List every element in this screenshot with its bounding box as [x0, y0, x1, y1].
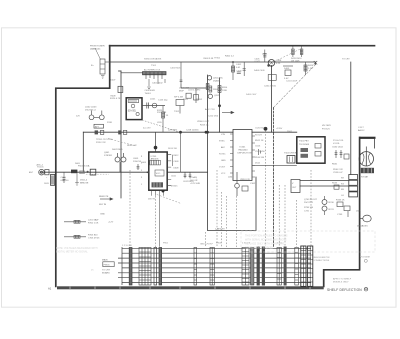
svg-text:C705 47/25: C705 47/25 — [88, 237, 100, 239]
svg-text:D406 C407: D406 C407 — [246, 94, 257, 96]
svg-text:VCC: VCC — [221, 173, 226, 175]
svg-text:680P: 680P — [179, 91, 184, 93]
svg-text:TP202: TP202 — [196, 99, 203, 101]
svg-text:C517 1/50: C517 1/50 — [255, 151, 265, 153]
svg-text:D601-4: D601-4 — [80, 180, 88, 182]
svg-text:SHELF DEFLECTION: SHELF DEFLECTION — [327, 288, 362, 292]
connector block P3 — [154, 248, 162, 286]
capacitor C405 above rail — [263, 50, 266, 63]
svg-text:VCO: VCO — [156, 173, 161, 175]
junction box K2 on wire — [118, 130, 121, 134]
svg-text:A66JC: A66JC — [358, 129, 365, 132]
connector block P2 ladder — [139, 248, 151, 286]
svg-text:DEGAUSS: DEGAUSS — [357, 225, 368, 228]
svg-text:D602 R605: D602 R605 — [112, 149, 123, 151]
svg-text:R119 2.2K: R119 2.2K — [96, 142, 106, 144]
footer title bar — [57, 286, 324, 289]
node X415 cross — [314, 61, 317, 64]
svg-text:KEY IN: KEY IN — [99, 204, 107, 206]
wire dashed vertical x273 — [273, 108, 275, 247]
svg-text:C605: C605 — [133, 158, 139, 160]
svg-text:DIGITAL METER NO SIGNAL: DIGITAL METER NO SIGNAL — [56, 251, 88, 254]
H.STAT dark box — [361, 168, 374, 173]
svg-text:H.STAT: H.STAT — [361, 176, 369, 179]
svg-text:R703 820: R703 820 — [88, 235, 98, 237]
node dot D big — [264, 127, 268, 131]
resistor R410 vertical — [292, 47, 295, 58]
svg-text:C520 R522: C520 R522 — [255, 127, 266, 129]
wire IC201 top feed — [155, 132, 157, 152]
svg-text:J-RED 9V: J-RED 9V — [215, 229, 225, 231]
svg-text:R702 1.5K: R702 1.5K — [88, 222, 99, 224]
svg-text:T501 FBT: T501 FBT — [299, 141, 309, 143]
svg-text:C731: C731 — [304, 211, 310, 213]
svg-text:2SC2271: 2SC2271 — [304, 202, 314, 204]
svg-text:REMOTE: REMOTE — [99, 196, 109, 198]
connector bar P2b ladder — [194, 248, 197, 286]
svg-text:BOARD: BOARD — [102, 271, 110, 274]
node circled ground — [364, 259, 367, 262]
connector block P1 — [129, 248, 132, 286]
svg-text:L203 4.5MHZ: L203 4.5MHZ — [188, 90, 201, 92]
wire L204 to Q201 — [181, 84, 208, 88]
svg-text:C609: C609 — [174, 161, 180, 163]
svg-text:1W 120K: 1W 120K — [291, 60, 300, 62]
dashed vertical feed x236 — [236, 196, 238, 247]
svg-text:THIS PORTION APPLIES TO CHASSI: THIS PORTION APPLIES TO CHASSIS — [245, 235, 288, 238]
dashed vertical feed x311 — [310, 170, 312, 246]
svg-text:(C) 4.8V: (C) 4.8V — [143, 128, 151, 130]
transformer T501 flyback bold box — [297, 137, 325, 163]
connector block P5 ladder — [242, 248, 249, 286]
junction box K1 on wire — [95, 130, 98, 134]
svg-text:V.OUT: V.OUT — [219, 167, 226, 169]
svg-text:C402: C402 — [236, 64, 242, 66]
node dot below IC201 — [162, 190, 165, 193]
chassis outline left step — [56, 46, 110, 287]
caption ground symbol circle — [364, 287, 368, 291]
svg-text:R512 1K: R512 1K — [255, 140, 264, 142]
svg-text:AGC 7.5V: AGC 7.5V — [205, 108, 215, 111]
svg-text:C210 1/50: C210 1/50 — [208, 116, 219, 118]
dashed board edge left — [108, 139, 136, 147]
svg-text:TLF14568: TLF14568 — [299, 144, 310, 146]
svg-text:D501: D501 — [287, 131, 293, 133]
capacitor C602 with ground — [63, 172, 66, 182]
node dot B — [179, 131, 182, 134]
wire x180 drop — [180, 132, 182, 172]
wire main B+ bus y62 — [110, 62, 316, 65]
svg-text:D608: D608 — [174, 167, 180, 169]
yoke stem — [365, 147, 367, 152]
svg-text:C408: C408 — [276, 60, 282, 62]
svg-text:R215 1K: R215 1K — [200, 125, 209, 127]
svg-text:RESOLDER PIN: RESOLDER PIN — [313, 257, 330, 259]
svg-text:H.OSC: H.OSC — [219, 154, 226, 156]
svg-text:C.R.T: C.R.T — [358, 127, 364, 129]
svg-text:+12V: +12V — [108, 222, 114, 224]
dashed link Q401 bias — [275, 48, 303, 61]
node dot C2 — [206, 131, 209, 134]
resistor R411 vertical — [300, 47, 303, 58]
dashed vertical feed x155 — [155, 196, 157, 247]
transistor Q121 — [152, 103, 157, 108]
wire right side y186 — [300, 185, 349, 187]
svg-text:R408: R408 — [111, 96, 117, 98]
transistor Q201 — [206, 76, 212, 90]
svg-text:C410 47/160: C410 47/160 — [264, 86, 277, 88]
svg-text:R206 10K: R206 10K — [213, 89, 223, 91]
wire vertical x219 — [219, 78, 221, 132]
resistor R204 vertical — [218, 86, 221, 93]
wire vertical x268 — [271, 66, 273, 132]
svg-text:(*): (*) — [91, 270, 94, 272]
node dot IC201 top — [154, 146, 158, 150]
svg-text:V-COIL: V-COIL — [333, 143, 341, 145]
svg-text:TO CRT: TO CRT — [102, 270, 111, 272]
transistor Q301 center — [235, 172, 248, 196]
svg-text:R740: R740 — [329, 202, 335, 204]
svg-text:C406 R405: C406 R405 — [170, 68, 181, 70]
svg-text:Q202: Q202 — [214, 95, 220, 97]
svg-text:T502 DRIVE: T502 DRIVE — [284, 153, 297, 155]
dashed vertical feed x279 — [278, 185, 280, 247]
dashed vertical feed x205 — [205, 232, 207, 247]
dashed vertical feed x296 — [296, 200, 298, 247]
transistor Q102 cluster left — [89, 111, 104, 129]
svg-text:D605: D605 — [75, 163, 81, 165]
svg-text:APPLY TO SHELF: APPLY TO SHELF — [333, 278, 352, 281]
svg-text:R403 3.3K: R403 3.3K — [204, 58, 214, 60]
svg-text:R531: R531 — [332, 164, 338, 166]
svg-text:Q301: Q301 — [228, 177, 234, 179]
svg-text:DEFLECTION: DEFLECTION — [238, 153, 252, 155]
connector T101 bar — [143, 72, 167, 90]
svg-text:AFC: AFC — [221, 146, 226, 149]
transistor Q703 circle — [322, 200, 327, 205]
wire Q703 stem — [324, 196, 326, 215]
dashed vertical feed x226 — [226, 196, 228, 247]
svg-text:C530 L504: C530 L504 — [332, 147, 343, 149]
svg-text:DY H-COIL: DY H-COIL — [333, 140, 344, 142]
wire vertical x207 — [208, 75, 257, 231]
svg-text:FOCUS: FOCUS — [322, 129, 330, 131]
svg-text:R122 56K: R122 56K — [157, 112, 167, 114]
bus harness lines — [118, 247, 311, 285]
svg-text:C218 100/16: C218 100/16 — [186, 130, 199, 132]
arrow into IC201 — [145, 171, 148, 173]
svg-text:P902: P902 — [163, 243, 169, 245]
svg-text:R745 1K: R745 1K — [336, 200, 345, 202]
transistor Q601 pair — [115, 153, 126, 172]
svg-text:2SC945 x2: 2SC945 x2 — [85, 109, 97, 111]
video out box V701 — [291, 180, 300, 193]
svg-text:T202: T202 — [174, 111, 180, 113]
capacitor C402 cluster — [231, 62, 240, 80]
svg-text:C401 R402: C401 R402 — [152, 83, 163, 85]
capacitor C121 plates — [142, 103, 165, 109]
svg-text:KG: KG — [341, 183, 344, 185]
svg-text:D405: D405 — [284, 68, 290, 70]
resistor R414 vertical — [304, 62, 307, 75]
connector block P11 ladder — [295, 248, 299, 286]
label below IC201 pins — [152, 191, 164, 247]
dashed vertical feed x130 — [129, 170, 131, 247]
svg-text:SW401 DEGAUSS: SW401 DEGAUSS — [144, 58, 162, 61]
svg-text:R204: R204 — [222, 87, 228, 89]
svg-text:C515: C515 — [255, 146, 261, 148]
svg-text:KR: KR — [341, 178, 344, 180]
diode D601 dark — [87, 171, 89, 173]
connector block P10 dark — [284, 247, 287, 286]
IC U201 bold box — [149, 152, 167, 190]
connector block P13 boxed ladder — [308, 246, 313, 286]
wire horizontal y132 — [83, 131, 296, 133]
tuner input jack — [39, 169, 49, 175]
svg-text:1.2K: 1.2K — [308, 68, 313, 70]
wire tuner line y172 — [40, 171, 208, 173]
dashed stub right of relay — [86, 173, 109, 175]
svg-text:16V 9V: 16V 9V — [148, 199, 156, 201]
svg-text:VOLTAGE: VOLTAGE — [360, 256, 371, 259]
svg-text:IC501: IC501 — [240, 147, 247, 149]
svg-text:H.OUT: H.OUT — [255, 135, 262, 137]
dashed vertical feed x221 — [221, 192, 223, 247]
node dot E — [71, 170, 77, 174]
svg-text:L601: L601 — [356, 211, 362, 213]
svg-text:WITH SERIAL NO. 50001 AND ABOV: WITH SERIAL NO. 50001 AND ABOVE — [245, 239, 287, 242]
svg-text:AC INTERLOCK: AC INTERLOCK — [144, 68, 161, 71]
ground G1 under blob — [75, 173, 79, 185]
svg-text:T101: T101 — [151, 65, 157, 67]
svg-text:R533: R533 — [332, 183, 338, 185]
svg-text:HV 26KV: HV 26KV — [322, 125, 332, 127]
svg-text:GND: GND — [100, 214, 105, 216]
dashed vertical feed x285 — [284, 185, 286, 246]
svg-text:16V OR: 16V OR — [190, 180, 198, 182]
svg-text:470/25: 470/25 — [171, 186, 178, 188]
svg-text:R610 0.22: R610 0.22 — [127, 145, 137, 147]
connector block P7 dark — [257, 247, 260, 286]
svg-text:C403: C403 — [237, 71, 243, 73]
connector block P12 boxed ladder — [301, 246, 306, 286]
svg-text:R736 120: R736 120 — [304, 207, 314, 209]
inductor L204 cluster — [180, 62, 192, 98]
svg-text:C123 22p: C123 22p — [158, 100, 168, 102]
arrow REMOTE — [100, 198, 113, 200]
IF module box — [176, 100, 184, 114]
svg-text:MAIN: MAIN — [102, 259, 108, 262]
deflection yoke circle — [359, 152, 373, 166]
svg-text:D407: D407 — [111, 80, 117, 82]
svg-text:C302: C302 — [250, 183, 256, 185]
connector block P9 ladder — [277, 248, 281, 286]
diode D402 under Q401 — [268, 75, 276, 81]
dashed board edge below IC201 — [157, 195, 181, 204]
IC U501 jungle box — [230, 130, 255, 181]
dashed link IC1 to bus — [142, 120, 179, 132]
bus left rail — [121, 247, 123, 285]
connector J101 top-left stubs — [95, 48, 110, 78]
watermark dashed service box — [241, 231, 375, 252]
svg-text:2SA561: 2SA561 — [213, 80, 221, 83]
svg-text:R530 2.2K: R530 2.2K — [333, 169, 343, 171]
resistor R125 vertical — [162, 106, 165, 133]
svg-text:NOTE: VOLTAGES MEASURED WITH: NOTE: VOLTAGES MEASURED WITH — [56, 247, 98, 250]
anode lead thick bar — [360, 137, 376, 139]
svg-text:BRIDGE: BRIDGE — [80, 182, 89, 184]
svg-text:A1: A1 — [48, 286, 52, 290]
degauss coil ellipse — [360, 215, 372, 222]
svg-text:R120 4.7K: R120 4.7K — [110, 98, 121, 100]
svg-text:C404 600V: C404 600V — [145, 90, 156, 92]
svg-text:STR381: STR381 — [104, 155, 113, 157]
svg-text:+12V SUB: +12V SUB — [190, 183, 200, 185]
svg-text:R414: R414 — [308, 65, 314, 67]
anode lead drop — [374, 139, 376, 149]
svg-text:REPLACE ONLY WITH SAME TYPE: REPLACE ONLY WITH SAME TYPE — [245, 243, 285, 246]
node dot on rail x268 — [271, 65, 273, 67]
svg-text:OUT: OUT — [292, 187, 297, 189]
relay box RL601 — [90, 169, 96, 175]
capacitor C605 — [137, 164, 140, 170]
resistor R408 small box left column — [118, 86, 123, 92]
wire dashed diagonal feed — [274, 65, 316, 108]
svg-text:P903: P903 — [216, 243, 222, 245]
svg-text:Q102 Q103: Q102 Q103 — [85, 107, 97, 109]
connector label box P101 — [103, 262, 114, 267]
svg-text:R118: R118 — [107, 122, 113, 124]
wire vertical x351 — [350, 62, 352, 175]
svg-text:SYNC: SYNC — [219, 141, 225, 143]
svg-text:TH401: TH401 — [145, 93, 152, 95]
svg-text:R612: R612 — [174, 155, 180, 157]
svg-text:+115V: +115V — [276, 128, 283, 130]
resistor R533 small — [334, 185, 339, 189]
svg-text:VIDEO OUT: VIDEO OUT — [197, 121, 210, 123]
svg-text:(MAIN) AC: (MAIN) AC — [90, 47, 101, 50]
svg-text:TU101: TU101 — [37, 167, 44, 169]
capacitor C403 below rail — [243, 62, 246, 76]
svg-text:T201: T201 — [183, 99, 189, 101]
svg-text:GND: GND — [221, 160, 226, 162]
IC U101 bold box — [126, 98, 142, 120]
svg-text:L201 SAW: L201 SAW — [88, 219, 99, 222]
wire vertical x121 — [120, 71, 122, 198]
connector block P6 — [251, 248, 254, 286]
resistor R745 cluster — [337, 202, 350, 217]
svg-text:C611: C611 — [171, 176, 177, 178]
svg-text:AGC-2: AGC-2 — [37, 164, 44, 167]
svg-text:Q601: Q601 — [104, 152, 110, 154]
node dot on rail x233 — [232, 61, 234, 63]
node junction dot A — [218, 104, 221, 107]
svg-text:R402 2.2: R402 2.2 — [225, 56, 235, 58]
chassis outline right step — [324, 138, 360, 287]
IC201 right pin stubs — [167, 155, 172, 186]
svg-text:FROM TUNER: FROM TUNER — [90, 46, 105, 48]
svg-text:AN5435: AN5435 — [151, 157, 160, 160]
svg-text:C745: C745 — [337, 214, 343, 216]
svg-text:R516 330: R516 330 — [255, 157, 265, 159]
svg-text:TP402: TP402 — [214, 58, 221, 60]
svg-text:V.IN: V.IN — [221, 134, 225, 136]
svg-text:Q201 AGC: Q201 AGC — [213, 77, 224, 80]
svg-text:Q703 R-OUT: Q703 R-OUT — [304, 199, 318, 201]
svg-text:COMPONENTS MARKED: COMPONENTS MARKED — [245, 247, 273, 250]
svg-text:0.047: 0.047 — [255, 61, 261, 63]
chassis outline top — [110, 45, 375, 47]
arrow AGC — [222, 111, 234, 113]
svg-text:MODELS ONLY: MODELS ONLY — [333, 282, 349, 284]
svg-text:Q121: Q121 — [150, 99, 156, 101]
transistor Q401 — [267, 60, 275, 67]
dashed vertical feed x216 — [216, 170, 218, 247]
node dot C — [205, 131, 208, 134]
svg-text:R614 330: R614 330 — [168, 148, 178, 150]
svg-text:CONNECTIONS: CONNECTIONS — [313, 260, 330, 262]
svg-text:12V REG: 12V REG — [168, 130, 178, 132]
transistor Q704 circle — [322, 206, 327, 211]
svg-text:D404 C409: D404 C409 — [254, 70, 265, 72]
capacitor C611 ticks — [184, 172, 192, 178]
svg-text:GND 12V H.P: GND 12V H.P — [200, 244, 214, 246]
svg-text:TO CRT: TO CRT — [342, 59, 350, 61]
resistor R601 horizontal — [80, 171, 85, 174]
svg-text:(EA-5E): (EA-5E) — [128, 110, 136, 113]
transistor Q202 — [208, 86, 212, 99]
dashed vertical feed x265 — [265, 131, 267, 246]
transformer T201 can — [194, 88, 199, 103]
capacitor C601 on main rail — [51, 175, 55, 186]
svg-text:12V: 12V — [76, 116, 80, 118]
svg-text:1 2 3 4 5 6: 1 2 3 4 5 6 — [122, 245, 133, 247]
svg-text:120K: 120K — [222, 90, 228, 92]
svg-text:C411 1000P: C411 1000P — [286, 81, 298, 83]
svg-text:160V: 160V — [44, 183, 49, 185]
svg-text:HA11440: HA11440 — [239, 149, 249, 152]
svg-text:VR301 2K: VR301 2K — [240, 179, 251, 181]
wire right side y180 — [300, 180, 349, 182]
resistor R703 horizontal — [64, 235, 86, 238]
svg-text:C533 0.47: C533 0.47 — [333, 172, 343, 174]
CRT pin connector stack — [349, 175, 358, 197]
svg-text:TP201 C121 1/50: TP201 C121 1/50 — [96, 139, 113, 141]
wire drive to FBT — [252, 164, 297, 166]
capacitor C530 pair near yoke — [335, 150, 349, 159]
connector block P8 dark — [262, 247, 265, 286]
capacitor C516 ticks — [259, 149, 261, 155]
svg-text:(LOAD): (LOAD) — [190, 176, 197, 179]
diode D405 cluster — [283, 66, 293, 76]
svg-text:R741: R741 — [329, 209, 335, 211]
resistor R702 horizontal — [64, 220, 86, 223]
svg-text:D512: D512 — [255, 163, 261, 165]
connector block P4 — [210, 248, 214, 286]
svg-text:SIF 4.5M: SIF 4.5M — [174, 97, 183, 99]
svg-text:PW01: PW01 — [104, 265, 111, 267]
driver transformer T502 box — [287, 156, 295, 164]
